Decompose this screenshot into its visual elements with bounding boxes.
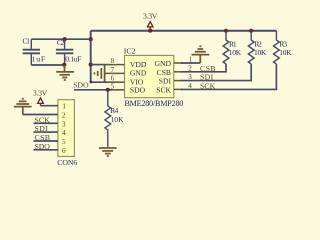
svg-text:SDO: SDO — [35, 142, 51, 151]
svg-text:GND: GND — [130, 69, 147, 78]
svg-text:3: 3 — [62, 119, 66, 128]
wire SDO — [74, 89, 112, 91]
svg-text:3.3V: 3.3V — [33, 89, 48, 98]
svg-text:CSB: CSB — [35, 133, 51, 142]
ground (decoupling caps) — [56, 65, 74, 80]
svg-text:SDO: SDO — [73, 80, 89, 89]
capacitor C2 — [56, 39, 73, 65]
svg-text:CSB: CSB — [200, 64, 216, 73]
svg-text:VDD: VDD — [130, 60, 147, 69]
wire CON6 pin 1 — [41, 105, 58, 107]
svg-text:SDI: SDI — [159, 77, 172, 86]
resistor R1 — [223, 31, 229, 64]
svg-text:SDO: SDO — [130, 85, 146, 94]
wire SDI — [181, 64, 251, 81]
svg-text:6: 6 — [62, 146, 66, 155]
svg-text:8: 8 — [111, 57, 115, 65]
junction SDO / R4 — [106, 88, 110, 92]
junction rail / R1 — [224, 29, 228, 33]
svg-text:1: 1 — [189, 56, 193, 64]
svg-text:BME280/BMP280: BME280/BMP280 — [124, 99, 183, 108]
svg-text:10K: 10K — [254, 48, 267, 57]
pin 7 GND — [105, 72, 124, 74]
svg-text:IC2: IC2 — [124, 46, 136, 55]
svg-text:1: 1 — [62, 102, 66, 111]
capacitor C1 — [23, 39, 40, 65]
wire capacitor top rail — [31, 38, 90, 40]
wire SCK — [181, 64, 276, 89]
IC IC2 BME280/BMP280 — [125, 55, 174, 97]
junction trunk / cap top rail — [89, 37, 93, 41]
svg-text:2: 2 — [62, 111, 66, 120]
wire 3.3V rail — [91, 30, 277, 32]
junction rail / 3.3V stem — [148, 29, 152, 33]
svg-text:10K: 10K — [111, 115, 125, 124]
power 3.3V (top rail) — [143, 12, 158, 30]
wire CSB — [181, 64, 226, 72]
wire CON6 pin 3 SCK — [34, 122, 58, 124]
svg-text:4: 4 — [62, 128, 66, 137]
pin 4 SCK — [174, 88, 182, 90]
svg-text:3.3V: 3.3V — [143, 12, 158, 21]
svg-text:7: 7 — [111, 66, 115, 74]
svg-text:C1: C1 — [23, 37, 31, 46]
svg-text:R4: R4 — [110, 106, 118, 115]
resistor R3 — [274, 31, 280, 64]
svg-text:R1: R1 — [229, 39, 237, 48]
svg-text:R2: R2 — [254, 39, 262, 48]
svg-text:10K: 10K — [229, 48, 242, 57]
svg-text:SCK: SCK — [35, 115, 51, 124]
ground (IC pin 1) — [192, 46, 210, 63]
wire CON6 pin 2 — [23, 114, 58, 116]
resistor R2 — [248, 31, 254, 64]
svg-text:C2: C2 — [57, 38, 65, 47]
junction rail / R2 — [249, 29, 253, 33]
wire CON6 pin 5 CSB — [34, 140, 58, 142]
wire CON6 pin 4 SDI — [34, 131, 58, 133]
ground (pin 7, sideways) — [94, 65, 104, 82]
svg-text:CON6: CON6 — [57, 158, 77, 167]
pin 5 SDO — [108, 89, 125, 91]
junction C2 top — [63, 37, 67, 41]
wire 3.3V trunk — [90, 31, 92, 82]
junction trunk / VDD pin — [89, 63, 93, 67]
svg-text:1uF: 1uF — [32, 54, 46, 63]
resistor R4 — [105, 90, 111, 147]
pin 2 CSB — [174, 71, 182, 73]
pin 8 VDD — [91, 64, 108, 66]
pin 6 VIO — [91, 81, 108, 83]
svg-text:SDI: SDI — [200, 73, 214, 82]
power 3.3V (CON6 pin 1) — [33, 89, 48, 106]
svg-text:SCK: SCK — [156, 85, 171, 94]
ground (CON6 pin 2) — [14, 99, 32, 115]
svg-text:SCK: SCK — [200, 82, 216, 91]
svg-text:GND: GND — [155, 59, 172, 68]
svg-text:0.1uF: 0.1uF — [65, 54, 82, 63]
svg-text:SDI: SDI — [35, 124, 49, 133]
wire CON6 pin 6 SDO — [34, 149, 58, 151]
svg-text:10K: 10K — [279, 48, 292, 57]
ground (R4) — [99, 148, 117, 156]
wire capacitor bottom rail — [31, 64, 64, 66]
junction cap bottom / ground — [62, 63, 66, 67]
pin 1 GND (right) — [174, 62, 182, 64]
pin 3 SDI — [174, 80, 182, 82]
svg-text:R3: R3 — [279, 39, 287, 48]
connector CON6 — [58, 100, 75, 157]
svg-text:CSB: CSB — [157, 68, 171, 77]
svg-text:5: 5 — [62, 137, 66, 146]
